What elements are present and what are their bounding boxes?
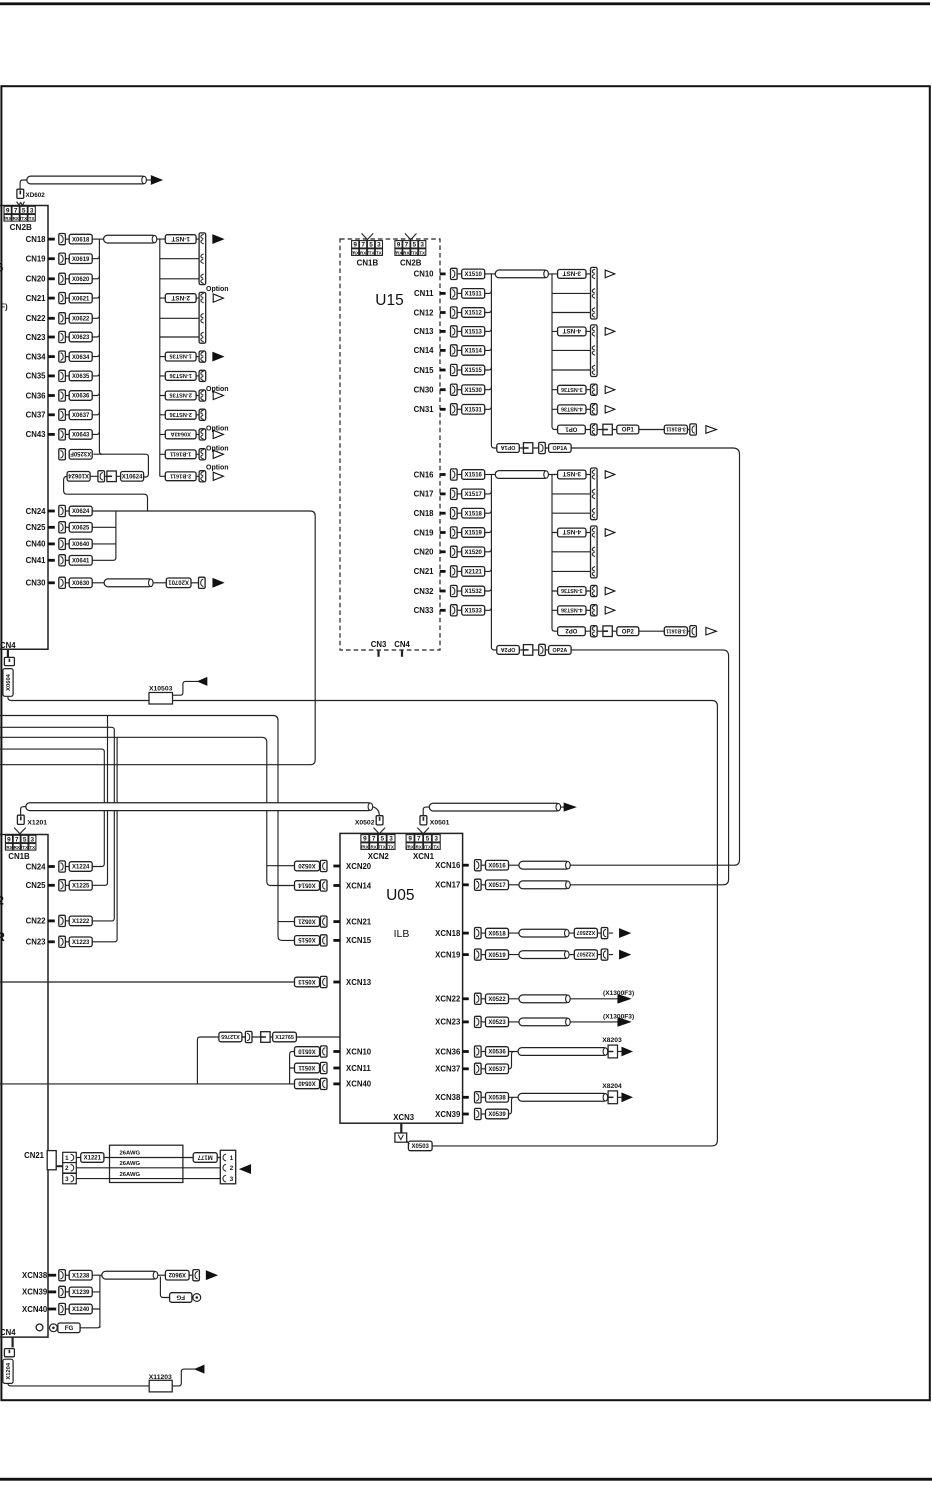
svg-text:ILB: ILB (394, 928, 410, 940)
svg-text:XCN40: XCN40 (346, 1080, 372, 1089)
svg-text:3-B1611: 3-B1611 (666, 627, 686, 633)
connector pin XCN15 (320, 935, 327, 946)
wire 3-NST36 (552, 389, 591, 391)
cable XCN38 group (102, 1271, 158, 1279)
svg-text:TX: TX (29, 216, 35, 221)
svg-text:TX: TX (29, 845, 35, 850)
svg-text:2: 2 (65, 1165, 69, 1172)
bracket X9602 (193, 1270, 200, 1281)
wire branch (552, 570, 591, 572)
arrow (filled) XCN22 (618, 995, 630, 1003)
wire net X1224 from page left (0, 749, 104, 866)
wire X10503 branch to arrow (173, 681, 199, 695)
connector X22507 (574, 950, 597, 960)
wire CN10 to cable (485, 273, 495, 275)
svg-text:CN1B: CN1B (357, 258, 379, 267)
svg-text:CN4: CN4 (394, 640, 410, 649)
svg-text:/TX: /TX (21, 845, 28, 850)
connector 1-NST35 (165, 352, 196, 361)
svg-text:X1530: X1530 (465, 388, 483, 394)
svg-text:X0501: X0501 (430, 820, 450, 827)
wire branch (552, 551, 591, 553)
svg-text:X0619: X0619 (72, 257, 90, 263)
svg-text:/RX: /RX (4, 216, 12, 221)
arrow (open) 3-NST36 (605, 386, 615, 394)
connector pin XCN20 (320, 860, 327, 871)
wire (65, 884, 69, 886)
wire X2121 to bus (485, 569, 491, 572)
wire merge XCN38/39 (509, 1097, 519, 1114)
arrow (filled) X22507 (620, 929, 630, 937)
svg-text:CN30: CN30 (414, 386, 435, 395)
cable XCN18 (519, 929, 569, 937)
svg-text:/TX: /TX (379, 844, 386, 849)
arrow (open) 2-B1611 (213, 472, 223, 480)
connector pin XCN40 (320, 1078, 327, 1089)
svg-text:CN31: CN31 (414, 405, 435, 414)
arrow (filled) X8204 (622, 1093, 632, 1101)
wire (65, 582, 69, 584)
bracket X22507 (601, 928, 608, 939)
svg-text:/RX: /RX (5, 845, 13, 850)
wire (586, 474, 591, 476)
svg-text:(F): (F) (0, 303, 8, 312)
svg-text:X12765: X12765 (275, 1035, 294, 1041)
connector pin CN24 (59, 505, 66, 516)
svg-text:RX: RX (403, 250, 409, 255)
wire X1225 riser to net XCN21 (92, 716, 107, 886)
bracket 1-NST36 (199, 370, 206, 381)
svg-text:CN19: CN19 (26, 255, 47, 264)
svg-text:5: 5 (22, 207, 26, 214)
svg-text:3: 3 (420, 242, 424, 249)
wire (481, 1051, 485, 1053)
bracket 4-NST36 (591, 605, 598, 616)
connector X0641 (69, 556, 92, 566)
connector X0501 (420, 816, 427, 825)
wire X0637 to bus (92, 412, 100, 415)
connector pin CN21 (59, 293, 66, 304)
cable CN30 (104, 579, 153, 587)
svg-text:OP2: OP2 (565, 627, 578, 633)
wire branch (552, 349, 591, 351)
connector pin CN15 (451, 364, 458, 375)
connector pin CN30 (451, 384, 458, 395)
svg-text:5: 5 (426, 836, 430, 843)
svg-text:XCN17: XCN17 (435, 881, 460, 890)
wire (509, 1021, 619, 1023)
wire X0634 to bus (92, 354, 100, 357)
svg-text:5: 5 (413, 242, 417, 249)
connector 3-pin (right of CN21 cable) (220, 1150, 235, 1184)
svg-text:XCN18: XCN18 (435, 929, 461, 938)
svg-text:7: 7 (372, 836, 376, 843)
svg-text:XCN22: XCN22 (435, 995, 461, 1004)
connector 3-NST (558, 470, 586, 479)
connector X0623 (69, 332, 92, 342)
connector X1532 (462, 586, 485, 596)
svg-text:X1515: X1515 (465, 368, 483, 374)
svg-text:5: 5 (23, 836, 27, 843)
page bottom edge line (0, 1478, 932, 1481)
connector X1531 (462, 405, 485, 415)
connector pin XCN16 (475, 860, 482, 871)
connector X1222 (69, 916, 92, 926)
svg-text:CN16: CN16 (414, 470, 435, 479)
right bus vertical of CN2B unit (157, 239, 166, 476)
wire X12765 chain (242, 1036, 273, 1038)
wire (189, 1274, 193, 1276)
svg-text:CN21: CN21 (24, 1151, 45, 1160)
wire (65, 336, 69, 338)
connector pin 3 CN21 (63, 1173, 77, 1183)
svg-text:7: 7 (14, 207, 18, 214)
svg-text:X1239: X1239 (72, 1290, 90, 1296)
svg-text:FG: FG (176, 1293, 185, 1300)
svg-text:1-B1611: 1-B1611 (170, 450, 191, 456)
connector OP1 (mating pair) (558, 425, 586, 434)
wire cable to arrow (146, 179, 151, 181)
connector pin CN19 (451, 527, 458, 538)
connector X1512 (462, 308, 485, 318)
svg-text:CN18: CN18 (26, 235, 47, 244)
connector X10624 (mating pair) (67, 472, 90, 482)
svg-text:XCN40: XCN40 (22, 1305, 48, 1314)
bracket 1-NST35 (199, 351, 206, 362)
wire 4-NST36 (552, 408, 591, 410)
svg-text:6: 6 (0, 263, 3, 275)
wire (457, 389, 462, 391)
svg-text:X1511: X1511 (465, 292, 483, 298)
pin header CN1B (bottom block) (5, 835, 36, 850)
arrow (open) 4-NST (605, 529, 615, 537)
bracket X0643A (199, 429, 206, 440)
wire (585, 630, 664, 632)
svg-text:X1518: X1518 (465, 511, 483, 517)
block U05 outline (340, 833, 463, 1123)
left bus vertical U15 group2 (491, 475, 496, 650)
wire (481, 932, 485, 934)
connector X0637 (69, 410, 92, 420)
bracket 1-B1611 (199, 449, 206, 460)
connector X1533 (462, 606, 485, 616)
wire (191, 582, 199, 584)
connector 1-B1611 (165, 450, 196, 459)
wire (457, 570, 462, 572)
connector X0618 (69, 234, 92, 244)
wire cable to arrow (560, 806, 564, 808)
svg-text:X0604: X0604 (6, 673, 12, 691)
terminal FG (right) (170, 1293, 192, 1303)
svg-text:3: 3 (389, 836, 393, 843)
wire (65, 278, 69, 280)
wire X1201 to cable (21, 807, 26, 816)
connector OP1A (mating pair) (497, 444, 520, 453)
svg-text:7: 7 (15, 836, 19, 843)
arrow (filled) X20701 (213, 579, 223, 587)
connector pin XCN36 (475, 1046, 482, 1057)
wire CN21 row3 (76, 1178, 220, 1180)
svg-text:X0635: X0635 (72, 374, 90, 380)
wire (519, 447, 548, 449)
wire (457, 292, 462, 294)
wire (509, 954, 614, 956)
connector pin CN23 (59, 331, 66, 342)
bracket X22507 (601, 949, 608, 960)
connector pin CN18 (59, 234, 66, 245)
arrow (filled, left) X11203 (195, 1365, 204, 1372)
connector X0518 (486, 928, 509, 938)
connector pin CN36 (59, 390, 66, 401)
svg-text:CN25: CN25 (26, 881, 47, 890)
wire net XCN40/XCN11/XCN10 from page left (0, 1052, 296, 1084)
svg-text:CN4: CN4 (0, 641, 16, 650)
connector pin XCN38 (59, 1270, 66, 1281)
connector X0619 (69, 254, 92, 264)
svg-text:CN3: CN3 (371, 640, 387, 649)
wire branch (552, 292, 591, 294)
arrow (open) 4-NST36 (605, 607, 615, 615)
connector pin CN35 (59, 370, 66, 381)
connector pin CN22 (59, 313, 66, 324)
svg-text:OP1A: OP1A (501, 444, 516, 450)
wire X10624 to CN24 net (64, 476, 148, 511)
svg-text:1: 1 (230, 1155, 234, 1162)
connector X0514 (295, 881, 320, 891)
svg-text:XCN39: XCN39 (22, 1288, 48, 1297)
connector 3-B1611 (664, 425, 687, 434)
connector pin CN12 (451, 307, 458, 318)
break mark below X0502 (374, 828, 386, 834)
svg-text:RX: RX (370, 844, 376, 849)
connector pin CN19 (59, 253, 66, 264)
break mark below X0501 (417, 828, 429, 834)
cable X0602 (27, 176, 147, 184)
wire (319, 939, 322, 941)
wire CN21 row1 (76, 1157, 220, 1159)
connector XD602 (17, 189, 24, 198)
connector X0604 label (3, 669, 13, 697)
wire (457, 493, 462, 495)
connector housing CN21 (47, 1151, 56, 1170)
svg-text:TX: TX (419, 250, 425, 255)
svg-text:3: 3 (65, 1176, 69, 1183)
connector X0634 (69, 352, 92, 362)
terminal FG (left) (50, 1324, 58, 1332)
svg-text:XCN19: XCN19 (435, 950, 461, 959)
wire (65, 1308, 69, 1310)
arrow (filled) X0602 (151, 176, 161, 184)
wire branch 1-NST35 (160, 356, 199, 358)
bracket 3-NST group (591, 468, 598, 520)
bracket 4-NST36 (591, 404, 598, 415)
arrow (filled) XCN23 (618, 1018, 630, 1026)
wire X0623 to bus (92, 334, 100, 337)
wire X1532 to bus (485, 588, 491, 591)
wire X0501 to cable (423, 807, 430, 816)
block U15 dashed outline (340, 239, 440, 650)
arrow (filled) 1-NST (213, 235, 223, 243)
svg-text:OP2A: OP2A (501, 646, 516, 652)
svg-text:X1514: X1514 (465, 349, 483, 355)
svg-text:XCN1: XCN1 (413, 852, 435, 861)
connector X0620 (69, 274, 92, 284)
wire X1517 to bus (485, 491, 491, 494)
wire X1514 to bus (485, 348, 491, 351)
svg-text:CN14: CN14 (414, 346, 435, 355)
svg-text:/RX: /RX (361, 844, 369, 849)
wire OP1A to XCN16 (566, 448, 740, 865)
svg-text:X0521: X0521 (298, 917, 316, 923)
svg-text:X1201: X1201 (27, 820, 47, 827)
wire (457, 369, 462, 371)
svg-text:CN20: CN20 (26, 275, 47, 284)
arrow (filled, left) CN21 (240, 1165, 250, 1173)
connector 2-NST (165, 294, 196, 303)
connector X1516 (462, 470, 485, 480)
svg-text:TX: TX (376, 250, 382, 255)
svg-text:XCN14: XCN14 (346, 881, 372, 890)
connector X0522 (486, 994, 509, 1004)
wire CN18 to cable (92, 238, 104, 240)
connector X1221 (81, 1153, 104, 1163)
wire X0620 to bus (92, 276, 100, 279)
connector pin CN13 (451, 326, 458, 337)
svg-text:X1221: X1221 (84, 1156, 102, 1162)
wire (65, 433, 69, 435)
wire CN16 to cable (485, 474, 495, 476)
arrow (open) 4-NST (605, 328, 615, 336)
svg-text:X0513: X0513 (298, 978, 316, 984)
svg-text:X0517: X0517 (488, 883, 506, 889)
wire X0619 to bus (92, 256, 100, 259)
wire (457, 532, 462, 534)
connector X0643 (69, 430, 92, 440)
svg-text:2-NST: 2-NST (171, 294, 190, 301)
connector pin CN22 (59, 915, 66, 926)
svg-text:Option: Option (206, 464, 229, 471)
wire (319, 1051, 322, 1053)
svg-text:X1240: X1240 (72, 1307, 90, 1313)
svg-text:X0519: X0519 (488, 953, 506, 959)
wire (65, 866, 69, 868)
svg-text:CN36: CN36 (26, 391, 47, 400)
svg-text:CN15: CN15 (414, 366, 435, 375)
svg-text:/RX: /RX (351, 250, 359, 255)
svg-text:X0618: X0618 (72, 237, 90, 243)
svg-text:CN34: CN34 (26, 352, 47, 361)
svg-text:CN33: CN33 (414, 606, 435, 615)
svg-text:RX: RX (360, 250, 366, 255)
wire X1511 to bus (485, 291, 491, 294)
wire (319, 885, 322, 887)
wire (65, 1274, 69, 1276)
svg-text:X1532: X1532 (465, 589, 483, 595)
wire (319, 921, 322, 923)
wire (65, 1291, 69, 1293)
pin header XCN1 (406, 835, 440, 850)
bracket 1-NST group (199, 233, 206, 285)
connector pin 1 CN21 (63, 1152, 77, 1162)
connector 3-B1611 (664, 627, 687, 636)
wire (457, 512, 462, 514)
wire X1533 to bus (485, 608, 491, 611)
pin header CN1B (U15) (351, 241, 382, 256)
arrow (filled) X0501 (564, 803, 575, 811)
connector X0517 (486, 880, 509, 890)
connector X1225 (69, 881, 92, 891)
wire (65, 543, 69, 545)
svg-text:OP2A: OP2A (553, 648, 568, 654)
svg-text:Option: Option (206, 386, 229, 393)
svg-text:CN2B: CN2B (400, 258, 422, 267)
connector 4-NST (558, 528, 586, 537)
wire (457, 349, 462, 351)
svg-text:X0637: X0637 (72, 413, 90, 419)
wire CN4 stub (401, 650, 403, 657)
wire (65, 317, 69, 319)
svg-text:X1517: X1517 (465, 492, 483, 498)
svg-text:CN37: CN37 (26, 411, 46, 420)
cable XCN38/39 (518, 1093, 608, 1101)
svg-text:3-NST: 3-NST (562, 270, 581, 277)
page top edge line (0, 2, 930, 5)
wire (481, 1096, 485, 1098)
svg-text:OP1A: OP1A (553, 446, 568, 452)
svg-text:X12765: X12765 (221, 1033, 240, 1039)
connector X0515 (295, 936, 320, 946)
connector X1223 (69, 937, 92, 947)
connector X20701 (166, 578, 191, 588)
connector pin CN20 (451, 546, 458, 557)
wire branch (552, 493, 591, 495)
connector X0636 (69, 391, 92, 401)
pin header CN2B (U15) (395, 241, 426, 256)
bracket 2-NST36 (199, 409, 206, 420)
bracket 3-B1611 (690, 626, 697, 637)
wire (65, 559, 69, 561)
wire (65, 238, 69, 240)
wire branch (552, 312, 591, 314)
svg-text:X1533: X1533 (465, 609, 483, 615)
connector pin CN21 (451, 566, 458, 577)
wire X1530 to bus (485, 387, 491, 390)
wire net X0604-X10503-X0503 (8, 696, 718, 1146)
svg-text:XCN37: XCN37 (435, 1065, 460, 1074)
connector X1515 (462, 365, 485, 375)
wire (457, 590, 462, 592)
wire (585, 429, 664, 431)
bracket 4-NST group (591, 325, 598, 377)
bracket X20701 (199, 577, 206, 588)
svg-text:X1516: X1516 (465, 473, 483, 479)
connector pin CN23 (59, 936, 66, 947)
svg-text:X1512: X1512 (465, 311, 483, 317)
arrow (open) 4-NST36 (605, 406, 615, 414)
wire X1513 to bus (485, 329, 491, 332)
svg-text:CN43: CN43 (26, 430, 47, 439)
connector X0621 (69, 293, 92, 303)
svg-text:RX: RX (416, 844, 422, 849)
connector X0523 (486, 1017, 509, 1027)
svg-text:XCN13: XCN13 (346, 978, 372, 987)
svg-text:26AWG: 26AWG (120, 1150, 141, 1156)
svg-text:M177: M177 (197, 1153, 213, 1159)
svg-text:X0625: X0625 (72, 526, 90, 532)
wire (687, 429, 689, 431)
svg-text:X1519: X1519 (465, 531, 483, 537)
wire cable to X9602 (158, 1274, 166, 1276)
